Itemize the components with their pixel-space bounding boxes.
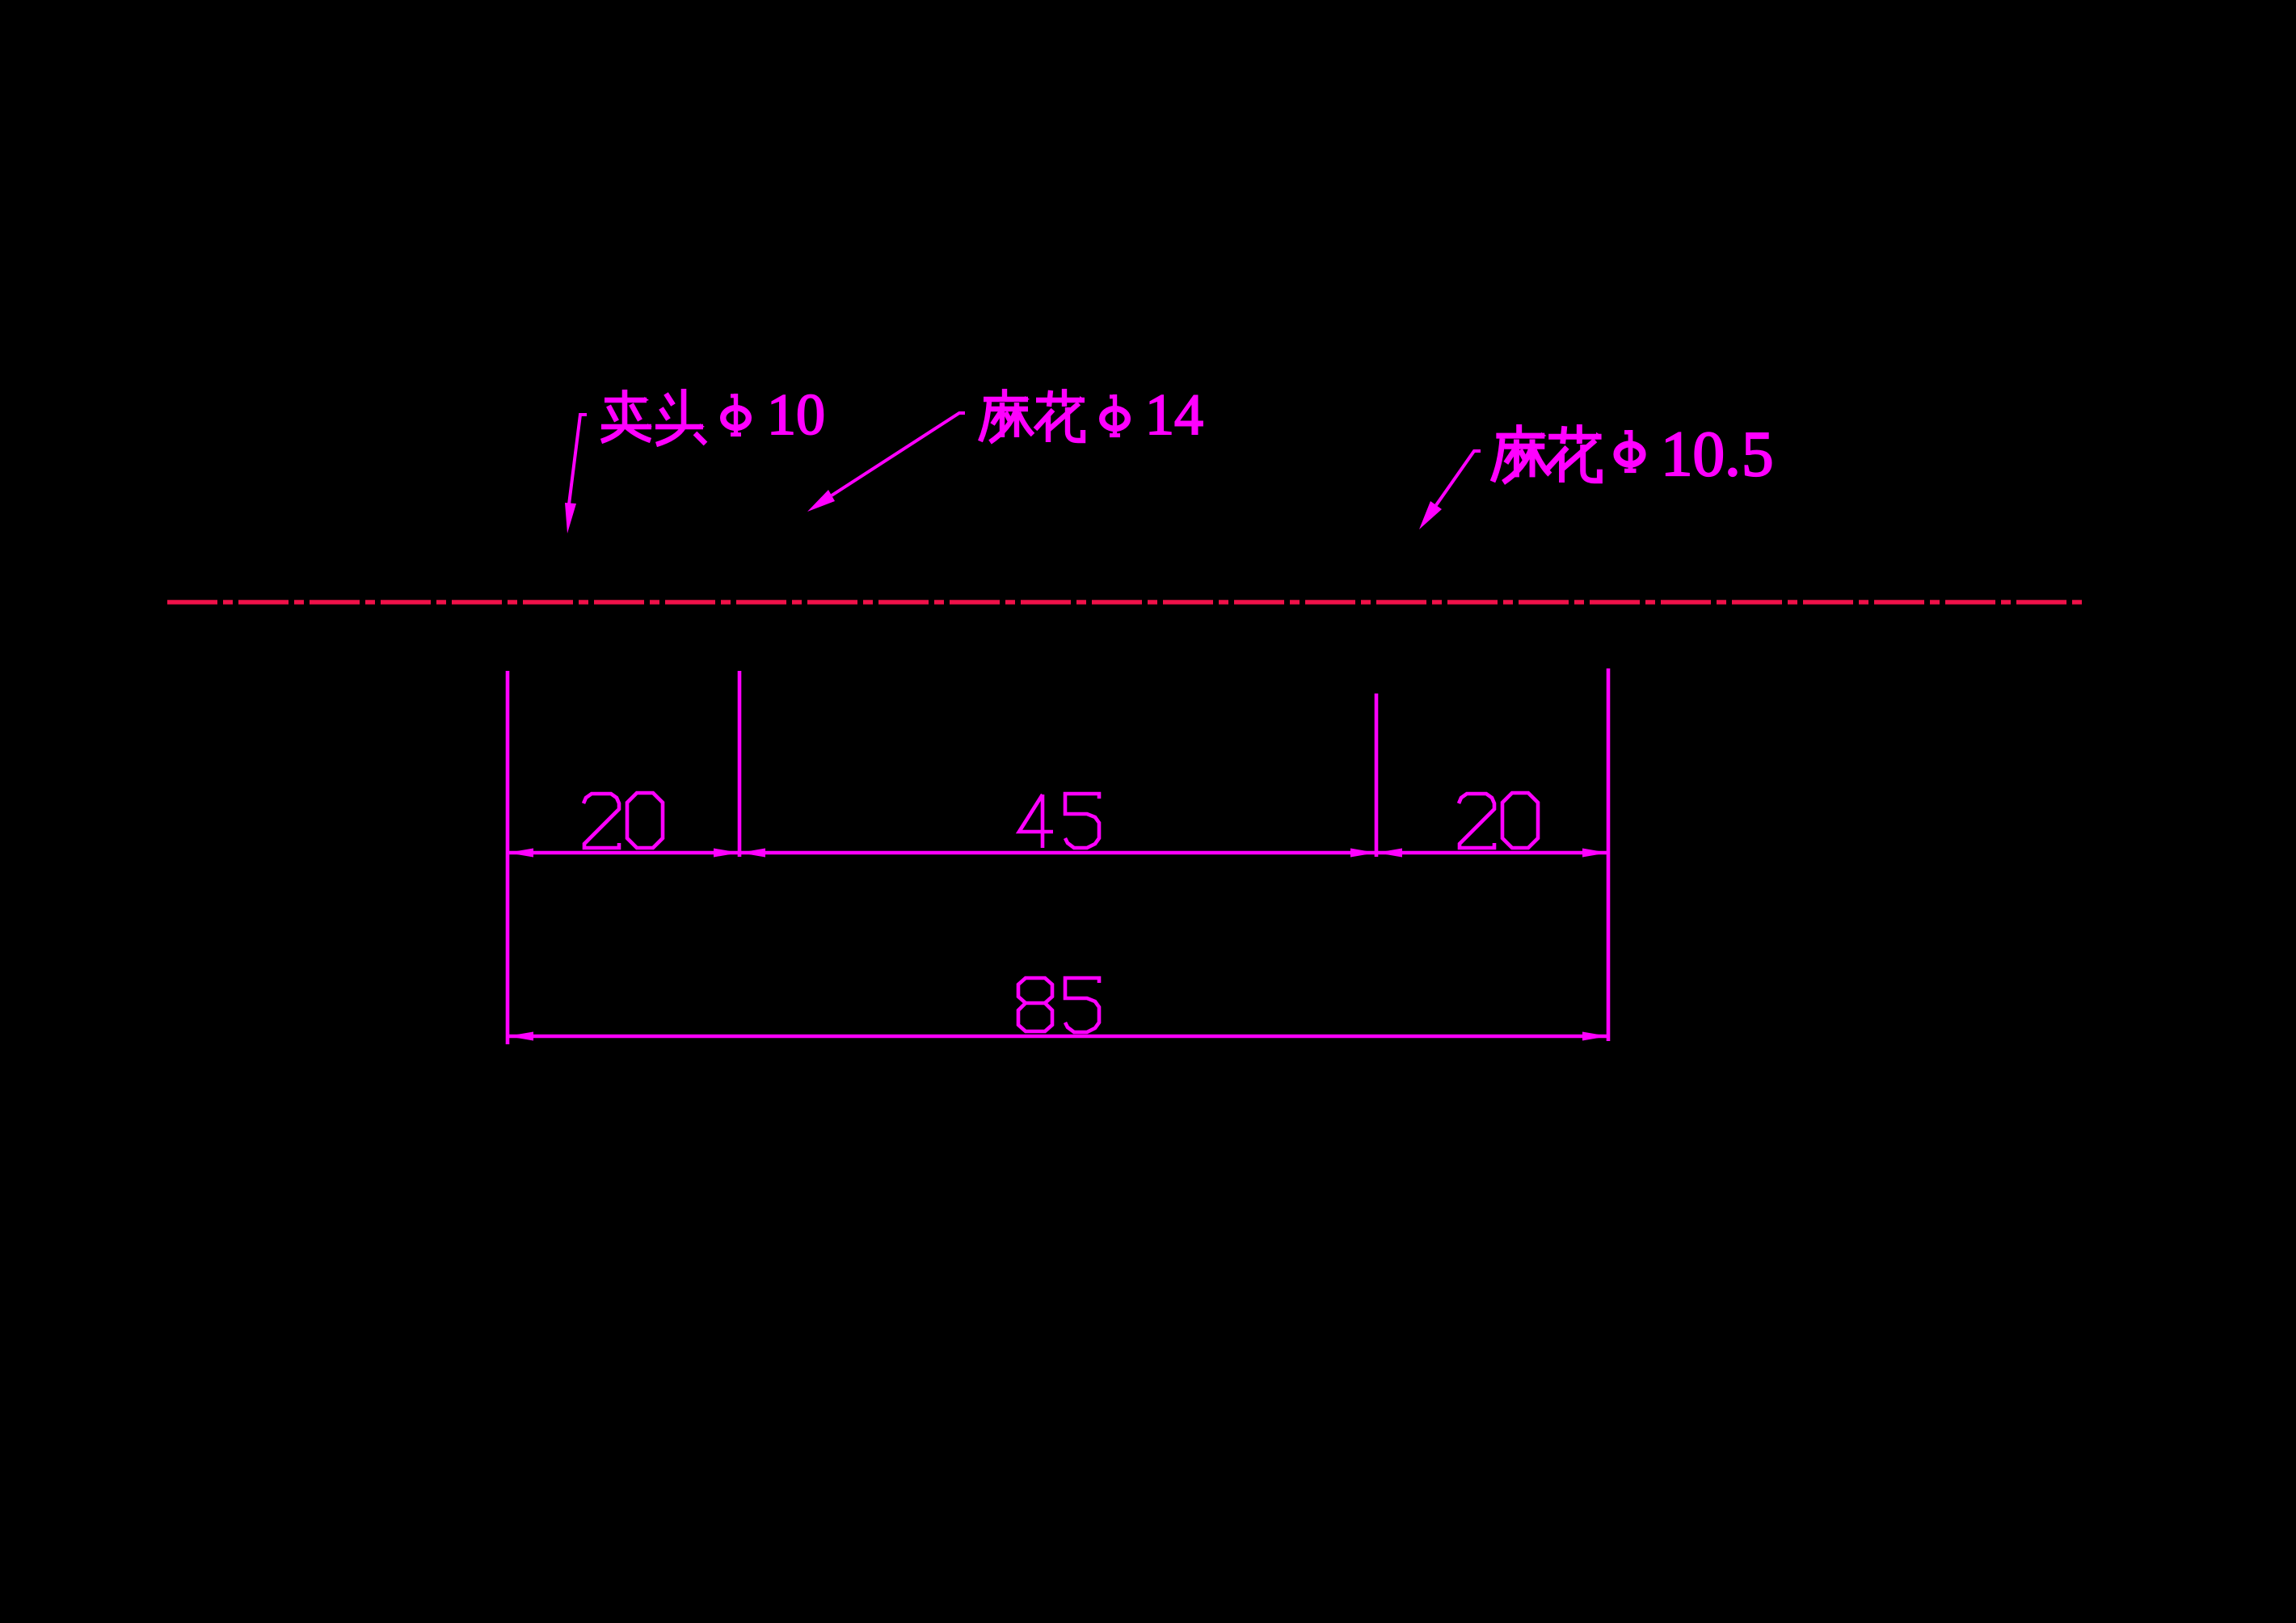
leader 3 arrowhead (1419, 501, 1442, 529)
dimension line 2 (85) (508, 1035, 1608, 1039)
leader 2 arrowhead (807, 490, 835, 512)
label 3 text: 麻花 (1493, 424, 1550, 483)
extension line E2 (738, 671, 742, 857)
extension line E3 (1375, 693, 1379, 857)
leader 1 arrowhead (565, 503, 576, 533)
leader 2: 麻花 φ14 (832, 413, 965, 495)
dim1 arrow at E4 (points right) (1582, 849, 1608, 858)
extension line E4 (1607, 668, 1611, 1041)
label 1 text: 夹头 (601, 390, 652, 441)
dimension line 1 (20 / 45 / 20) (508, 851, 1608, 855)
label 3 text: φ10.5 (1617, 430, 1643, 473)
dim2 arrow at E4 (points right) (1582, 1032, 1608, 1041)
label 2 text: φ14 (1102, 394, 1128, 437)
dim1 arrows at E3 (1350, 849, 1376, 858)
dim text 20 (first) (583, 794, 619, 848)
dim2 arrow at E1 (points left) (508, 1032, 533, 1041)
dim text 20 (second) (1459, 794, 1494, 848)
svg-text:10.: 10. (1661, 419, 1741, 490)
centerline (red dash-dot) (167, 600, 2087, 604)
label 1 text: φ10 (723, 394, 749, 436)
leader 1: 夹头 φ10 (569, 415, 587, 504)
dim text 45 (1019, 795, 1053, 848)
dim1 arrow at E1 (points left) (508, 849, 533, 858)
svg-text:14: 14 (1145, 382, 1203, 447)
svg-text:10: 10 (767, 382, 825, 447)
leader 3: 麻花 φ10.5 (1436, 451, 1481, 505)
dim text 85 (1018, 978, 1052, 1031)
extension line E1 (506, 671, 510, 1044)
svg-text:5: 5 (1742, 419, 1774, 490)
dim1 arrows at E2 (714, 849, 739, 858)
label 2 text: 麻花 (980, 389, 1033, 442)
